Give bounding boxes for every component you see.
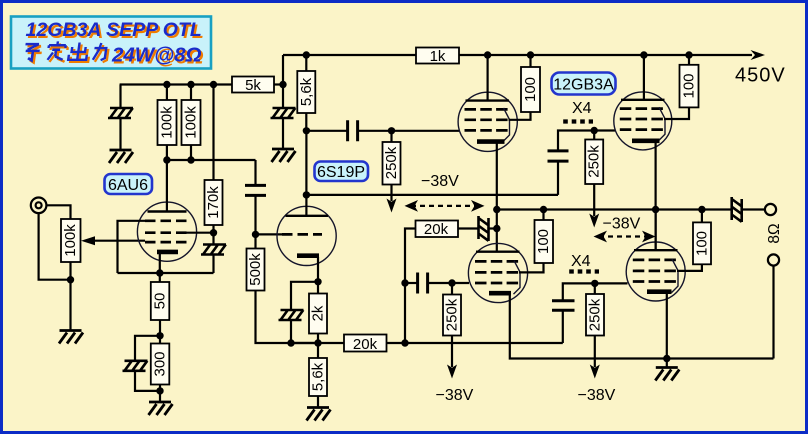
wire 100k-2 bottom lead [190,145,192,160]
wire E3 bottom lead [212,255,214,274]
tube UR cathode [632,139,660,144]
node dot rail/100 UL [527,51,534,58]
node dot plate/100k-2 [187,156,194,163]
tube UR grid row3 [620,128,664,131]
tube 6S19P envelope [277,206,336,265]
node dot screen 6AU6 [210,229,217,236]
tube UR grid row2 [620,118,664,121]
tube UL cathode [477,139,505,144]
wire 20k lower to x405 [387,342,563,344]
tube 6AU6 envelope [137,202,196,261]
wire jack ground return [39,213,71,280]
node dot pot bottom [67,276,74,283]
capacitor electrolytic E4 cathode bypass [123,361,148,371]
wire 100k-1 bottom lead [166,145,168,160]
tube 6S19P grid row [282,233,322,236]
wire 250k UL top lead [390,131,392,142]
ground G6 [655,368,679,381]
capacitor electrolytic E1 [108,108,133,118]
arrow to -38V UL [387,199,397,213]
wire LR grid into tube [595,282,628,284]
tube LL grid row1 [475,260,519,263]
dotted marks X4 upper [563,119,593,123]
ground G4 [149,402,173,415]
title line2 kanji 定 shadow [49,43,68,61]
capacitor C1 coupling [245,185,266,195]
tube 6AU6 grid row3 [145,241,187,244]
tube 6AU6 grid row1 [145,219,187,222]
tube LR beam plate [672,259,679,293]
wire UR grid into tube [594,129,615,131]
wire bypass E4 bottom branch [135,371,160,391]
wire 5,6k lower to ground [317,396,319,408]
wire 250k LL bottom arrow [451,336,453,368]
wire 5k rail left [120,83,232,85]
node dot rail/100k-1 [163,81,170,88]
node dot rail/100k-2 [187,81,194,88]
wire 6AU6 plate lead [166,160,168,212]
tube UL grid row1 [465,108,509,111]
wire 20k upper left lead [405,229,416,344]
title line2 kanji 定 [47,41,66,59]
tube LR plate [634,249,678,251]
capacitor electrolytic E6 [479,216,489,241]
wire jack to pot top [47,205,71,219]
wire 170k bottom lead [212,225,214,245]
wire 100k-1 top lead [166,85,168,101]
resistor 500k [247,249,265,291]
wire output rail [497,208,732,210]
wire UR plate lead [643,55,645,100]
wire E5 bottom branch [291,320,318,343]
node dot 2k/y343 [314,339,321,346]
wire C1 to grid node [254,195,256,234]
capacitor C3 coupling upper-right [548,151,569,161]
wire C3 to UR grid line [558,131,594,151]
node dot cathode 6S19P [314,278,321,285]
arrow pot wiper head [81,236,95,245]
node dot plate/y195 [303,191,310,198]
wire E1 to ground [119,118,121,150]
tube LL envelope [468,243,527,302]
tube UL plate [466,99,510,101]
node dot outrail/100 LR [698,206,705,213]
wire 5,6k bottom lead [305,113,307,131]
node dot outrail/x655 [652,206,659,213]
tube 6S19P cathode [297,253,319,258]
arrowhead dashed right [471,200,485,212]
ground G5 [307,408,331,421]
wire grid node to UL tube [392,130,460,132]
potentiometer 100k body [61,219,81,262]
wire 500k bottom to y343 rail [256,291,345,344]
node dot rail/UR plate [640,51,647,58]
resistor 170k [205,180,223,225]
resistor 250k LR grid leak [586,294,604,336]
wire cathode bus y273 [118,272,214,274]
node dot 6S19P grid [252,231,259,238]
wire C5 to LR grid line [563,283,595,300]
node dot 300/E4 [156,387,163,394]
wire C4 to LL grid [428,282,469,284]
node dot E5/y343 [287,339,294,346]
node dot 5k-rail/x283 [279,81,286,88]
arrowhead dashed left [405,200,419,212]
node dot plate/C2 [303,127,310,134]
node dot UR grid [591,127,598,134]
tube 6AU6 cathode [157,250,178,255]
dotted marks X4 lower [569,269,599,273]
wire 170k top lead [212,85,214,181]
wire LR cathode to ground rail [666,293,668,359]
node dot rail/5,6k [303,51,310,58]
node dot LL grid [448,279,455,286]
tube LR cathode [647,289,672,294]
tube LL grid row2 [475,271,519,274]
resistor 100 LR screen [693,222,711,264]
resistor 250k LL grid leak [443,295,461,336]
wire 6S19P cathode lead [317,257,319,294]
title line2 kanji 予 shadow [25,46,42,62]
resistor 5k [232,77,274,93]
title line2 kanji 出 shadow [70,44,90,61]
tube LL beam plate [514,261,521,295]
wire 250k LR top lead [594,283,596,294]
capacitor electrolytic E5 cathode bypass [279,310,304,320]
capacitor C4 coupling lower-left [418,273,428,294]
capacitor electrolytic E2 [271,108,296,118]
node dot rail/UL plate [484,51,491,58]
wire 5,6k top lead [305,55,307,71]
resistor 1k [416,48,459,64]
wire 6AU6 screen out [184,232,214,234]
wire 500k top lead [254,234,256,248]
tube 6AU6 plate [148,210,187,212]
wire 100 UR top lead [688,55,690,65]
title line2 kanji 出 [68,42,88,59]
capacitor electrolytic E7 output [732,197,742,222]
wire pot bottom lead [69,262,71,280]
wire pot node to ground [69,280,71,331]
resistor 100k (plate load 2) [182,100,201,145]
wire 100 LR top lead [701,210,703,223]
wire UL plate lead [487,55,489,101]
wire x283 drop to cap [282,85,284,109]
tube UL beam plate [503,108,510,142]
wire E5 top branch [291,282,318,310]
tube LL cathode [489,291,511,296]
resistor 5,6k lower [309,358,327,396]
wire UR cathode to output rail [654,142,656,250]
node dot outrail/x497 [493,206,500,213]
arrowhead dashed UR right [642,231,656,243]
wire 250k UR top lead [593,131,595,140]
title line2 kanji 力 shadow [95,45,109,62]
resistor 100k (plate load 1) [158,100,177,145]
ground G1 [109,150,133,163]
wire y160 corner down [254,160,256,185]
input jack outer [31,198,47,214]
wire 250k UR bottom arrow [593,184,595,216]
wire C2 to upper grid node [358,130,392,132]
capacitor C5 coupling lower-right [552,301,575,311]
tube UR grid row1 [620,107,664,110]
label 6AU6 box [105,174,153,194]
wire 300 bottom lead [159,385,161,403]
wire row1 tie to cathode line [118,221,146,273]
tube UL envelope [458,92,517,151]
wire LL screen out [519,263,544,272]
arrow to -38V LL [447,365,457,379]
title line2 kanji 予 [23,44,40,60]
terminal output return [768,254,779,265]
wire LL cathode to ground rail [510,295,774,359]
tube LR grid row3 [633,280,677,283]
wire E2 to ground [282,118,284,149]
tube UR envelope [614,92,672,150]
wire terminal return down [772,266,774,359]
wire plate node y160 [167,159,256,161]
ground G3 [59,331,83,344]
wire plate node to C2 [306,130,347,132]
tube LL grid row3 [475,282,519,285]
node dot y343/x405 [401,339,408,346]
node dot cathode y273 [156,269,163,276]
wire pot wiper to grid [91,240,145,242]
tube LL plate [476,250,520,252]
arrow to -38V UR [589,214,599,228]
dashed arrow swing upper-right [599,235,650,237]
wire 100 LL top lead [542,210,544,221]
wire 250k LR bottom arrow [594,336,596,368]
wire 6S19P plate lead [305,131,307,216]
terminal output hot [765,204,776,215]
wire UR screen out [664,107,689,119]
wire LR screen out [677,264,702,271]
resistor 100 UR screen [680,65,699,108]
node dot 50/300 [156,332,163,339]
wire 5k rail right stub [274,83,283,85]
tube UL grid row2 [465,118,509,121]
node dot ground rail [663,355,670,362]
tube UR plate [621,99,665,101]
node dot rail/100 UR [685,51,692,58]
capacitor electrolytic E3 screen bypass [201,245,226,255]
node dot E6/x497 [493,225,500,232]
node dot x405/C4 [401,279,408,286]
resistor 250k UL grid leak [383,142,401,185]
wire 100k-2 top lead [190,85,192,101]
tube UL grid row3 [465,129,509,132]
wire UL screen out [509,112,531,120]
arrowhead dashed UR left [594,231,608,243]
wire y343 corner up to C5 [562,311,564,344]
wire E6 to output vertical [489,227,497,229]
wire 20k upper right lead [458,227,478,229]
resistor 300 [151,344,170,385]
resistor 2k [309,294,327,334]
resistor 20k upper feedback [416,221,459,238]
wire 6AU6 cathode lead [159,253,161,282]
wire y195 drive line [306,194,558,196]
title line2 kanji 力 [93,43,107,60]
label 12GB3A box [552,73,616,95]
wire grid node into tube [256,233,283,235]
wire 50 to 300 [159,320,161,344]
input jack inner [36,202,42,208]
title box [11,17,211,69]
arrow 450V rail head [751,50,766,60]
node dot rail/170k [210,81,217,88]
tube 6AU6 grid row2 [145,231,187,234]
resistor 250k UR grid leak [585,140,603,185]
node dot outrail/100 LL [540,206,547,213]
node dot upper-left grid [388,127,395,134]
resistor 100 LL screen [535,220,554,263]
wire bypass E4 top branch [135,336,160,361]
label 6S19P box [315,162,369,182]
arrow to -38V LR [590,365,600,379]
resistor 5,6k plate load [297,71,315,113]
wire 2k bottom lead [317,334,319,359]
resistor 50 [151,282,170,320]
wire 100 UL top lead [529,55,531,67]
wire UL cathode to output rail [496,143,498,252]
wire 250k LL top lead [451,283,453,295]
tube LR grid row1 [633,259,677,262]
tube LR grid row2 [633,270,677,273]
tube UR beam plate [659,107,666,141]
ground G2 [272,149,296,162]
resistor 20k lower [344,335,387,352]
wire ground stub [666,359,668,368]
wire x558 up branch [557,161,559,195]
capacitor C2 coupling upper [348,120,358,141]
resistor 100 UL screen [521,67,540,112]
tube 6S19P plate [286,215,329,217]
wire x120 drop to cap [119,85,121,109]
node dot LR grid [591,280,598,287]
wire 450V top rail [283,54,752,56]
wire x405 to C4 [405,282,417,284]
wire E7 to terminal [742,208,765,210]
tube LR envelope [626,242,685,301]
node dot plate/100k-1 [163,156,170,163]
wire LR plate lead [654,210,656,251]
wire rail corner down to 5k node [282,55,284,85]
dashed arrow swing upper-left [411,205,478,207]
wire 250k UL bottom arrow [390,185,392,202]
